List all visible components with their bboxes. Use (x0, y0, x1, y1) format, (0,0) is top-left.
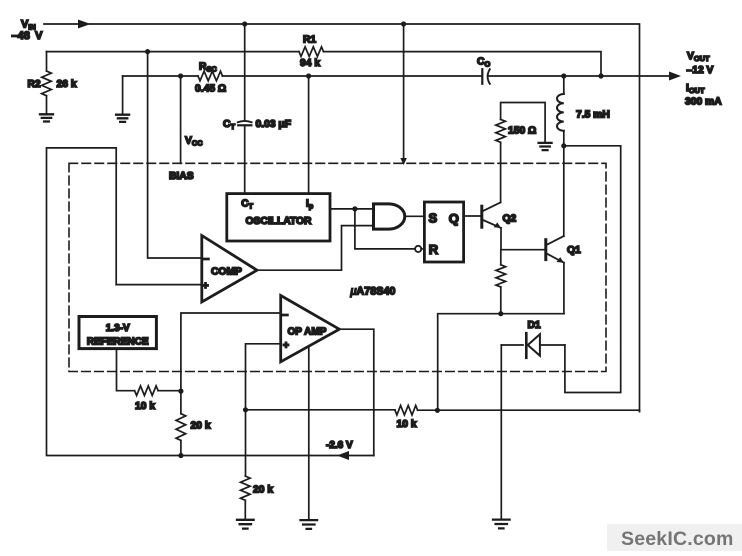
node on feedback row (498, 311, 503, 316)
op-amp COMP comparator (202, 236, 257, 303)
wire diode anode down to ground (500, 345, 502, 519)
wire Q1 collector up to inductor node (563, 146, 565, 236)
svg-text:CT: CT (223, 119, 235, 131)
svg-text:–: – (283, 310, 289, 321)
node: row B drop (598, 73, 603, 78)
arrowhead on -2.6V rail (337, 451, 349, 460)
diode D1 (501, 344, 523, 346)
resistor 20 k (upper) (176, 414, 186, 441)
svg-text:0.03 μF: 0.03 μF (256, 119, 292, 130)
svg-text:CT: CT (241, 199, 253, 211)
SR flip-flop box (424, 202, 463, 262)
wire bottom rail right (418, 410, 640, 411)
wire comp + input (116, 284, 202, 286)
wire Vcc pin stub (180, 76, 182, 163)
svg-text:1.3-V: 1.3-V (106, 323, 130, 334)
wire 20k to -2.6V rail (180, 440, 182, 455)
wire comp output to AND gate (257, 226, 374, 271)
wire bubble to SR box (421, 248, 424, 250)
wire R2 bottom (46, 96, 48, 114)
wire output row left part (123, 75, 198, 77)
wire op amp output down to -2.6V rail (339, 329, 374, 455)
wire pin stub to IC edge (403, 24, 405, 161)
node bottom rail left (243, 407, 248, 412)
svg-text:26 k: 26 k (57, 79, 77, 90)
transistor Q2 (480, 206, 483, 227)
IC boundary dashed box (uA78S40) (69, 163, 606, 371)
AND gate (374, 204, 405, 229)
svg-text:REFERENCE: REFERENCE (87, 337, 149, 348)
wire inductor node right and down right side (564, 146, 621, 393)
svg-text:Q1: Q1 (567, 245, 581, 256)
op-amp OP AMP triangle (281, 296, 340, 362)
wire osc node down to R input (355, 209, 415, 249)
ground under R2 (40, 114, 53, 121)
svg-text:Q: Q (449, 211, 459, 226)
node: VIN rail / CT line junction (242, 21, 247, 26)
transistor Q1 (544, 240, 547, 260)
wire comp inverting input riser (148, 52, 202, 258)
node: Ip tap (306, 73, 311, 78)
node bottom rail / feedback riser (435, 408, 440, 413)
wire 150 ohm top hat to ground (501, 103, 545, 143)
svg-text:COMP: COMP (211, 267, 242, 278)
svg-text:R: R (429, 242, 439, 257)
wire row C left drop (122, 76, 124, 114)
wire op amp ground leg (308, 346, 310, 520)
wire op amp inverting input (181, 313, 281, 391)
svg-text:IOUT: IOUT (686, 83, 705, 95)
capacitor CT plates (238, 121, 252, 122)
wire CT line upper (244, 24, 246, 121)
node oscillator output (352, 206, 357, 211)
ground under 20k (237, 520, 254, 529)
1.3-V REFERENCE box (79, 317, 156, 349)
svg-text:VOUT: VOUT (687, 51, 710, 63)
ground under op amp (301, 520, 318, 529)
wire reference box to 10k (117, 349, 135, 391)
wire inductor top lead (563, 76, 565, 94)
svg-text:–: – (204, 254, 210, 265)
resistor R2 (42, 71, 52, 96)
wire output row middle (223, 75, 482, 77)
wire CT line lower (244, 125, 246, 193)
svg-text:VCC: VCC (185, 136, 203, 148)
node: Vcc tap (178, 73, 183, 78)
svg-text:94 k: 94 k (300, 58, 320, 69)
wire bottom rail (246, 409, 396, 411)
wire Q output to Q2 base (464, 215, 482, 217)
svg-text:BIAS: BIAS (169, 171, 194, 182)
capacitor CO plates (481, 69, 483, 84)
node: inductor top (561, 73, 566, 78)
resistor 150 ohm (496, 119, 506, 142)
node on -2.6V rail (178, 453, 183, 458)
wire 20k to ground (244, 500, 246, 519)
svg-text:0.45 Ω: 0.45 Ω (195, 84, 226, 95)
inductor 7.5 mH (557, 94, 564, 131)
svg-text:Ip: Ip (306, 199, 314, 211)
svg-text:-2.6 V: -2.6 V (326, 440, 353, 451)
svg-text:SeekIC.com: SeekIC.com (621, 528, 734, 550)
svg-text:CO: CO (477, 57, 490, 69)
svg-text:R2: R2 (28, 79, 41, 90)
wire oscillator output (330, 208, 374, 210)
wire Ip line (308, 76, 310, 194)
watermark SeekIC.com (607, 524, 742, 551)
wire + riser down across -2.6V rail (245, 410, 247, 476)
svg-text:RSC: RSC (199, 62, 217, 74)
svg-text:Q2: Q2 (503, 214, 517, 225)
wire R2 top (46, 52, 48, 71)
wire R1 right to Vout row (324, 52, 602, 76)
svg-text:7.5 mH: 7.5 mH (576, 110, 610, 121)
wire AND output (405, 215, 425, 217)
svg-text:20 k: 20 k (191, 421, 211, 432)
wire inductor bottom lead (563, 131, 565, 146)
svg-text:10 k: 10 k (135, 401, 155, 412)
svg-text:OSCILLATOR: OSCILLATOR (246, 216, 313, 227)
wire 10k to node (158, 390, 181, 392)
inverting bubble at R (415, 246, 421, 252)
ground at row C left (116, 115, 129, 122)
svg-text:20 k: 20 k (253, 485, 273, 496)
svg-text:300 mA: 300 mA (685, 97, 722, 108)
svg-text:10 k: 10 k (397, 419, 417, 430)
svg-text:D1: D1 (528, 320, 541, 331)
svg-text:+: + (283, 341, 289, 352)
wire VIN top rail (44, 24, 640, 412)
resistor (Q2 emitter to feedback node) (496, 265, 506, 287)
svg-text:–48 V: –48 V (12, 30, 44, 42)
svg-text:–12 V: –12 V (687, 65, 714, 76)
svg-text:150 Ω: 150 Ω (508, 126, 536, 137)
wire Q1 emitter node row (438, 314, 564, 411)
wire Q2 emitter down and to Q1 base (501, 228, 546, 250)
node 10k / 20k / op amp input (178, 389, 183, 394)
wire Q1 emitter down (563, 263, 565, 314)
ground for 150 ohm (539, 143, 552, 150)
svg-text:OP AMP: OP AMP (288, 327, 327, 338)
wire resistor to node (500, 287, 502, 314)
svg-text:S: S (429, 210, 438, 225)
ground under diode (493, 520, 510, 529)
svg-text:R1: R1 (303, 35, 316, 46)
wire to resistor below Q2 (500, 250, 502, 265)
svg-text:+: + (203, 281, 209, 292)
resistor R1 (299, 47, 324, 57)
wire -2.6V rail and left loop to comp + input (47, 148, 374, 456)
node inductor bottom (561, 143, 566, 148)
arrowhead on VIN rail (78, 20, 91, 29)
node: row B / comp riser (145, 49, 150, 54)
wire op amp + input (246, 344, 281, 410)
wire node down to 20k (180, 391, 182, 414)
resistor 10 k (right) (395, 405, 418, 415)
svg-text:μA78S40: μA78S40 (350, 286, 396, 298)
wire Q2 collector up (500, 142, 502, 202)
wire -48V row with R1 (47, 51, 300, 53)
node: VIN rail / pin stub junction (401, 21, 406, 26)
op-amp U1 OSCILLATOR box (227, 194, 330, 241)
resistor RSC (198, 71, 223, 81)
resistor 10 k (left) (135, 386, 159, 396)
wire output row right to VOUT arrow (489, 75, 671, 77)
resistor 20 k (lower) (241, 476, 251, 500)
